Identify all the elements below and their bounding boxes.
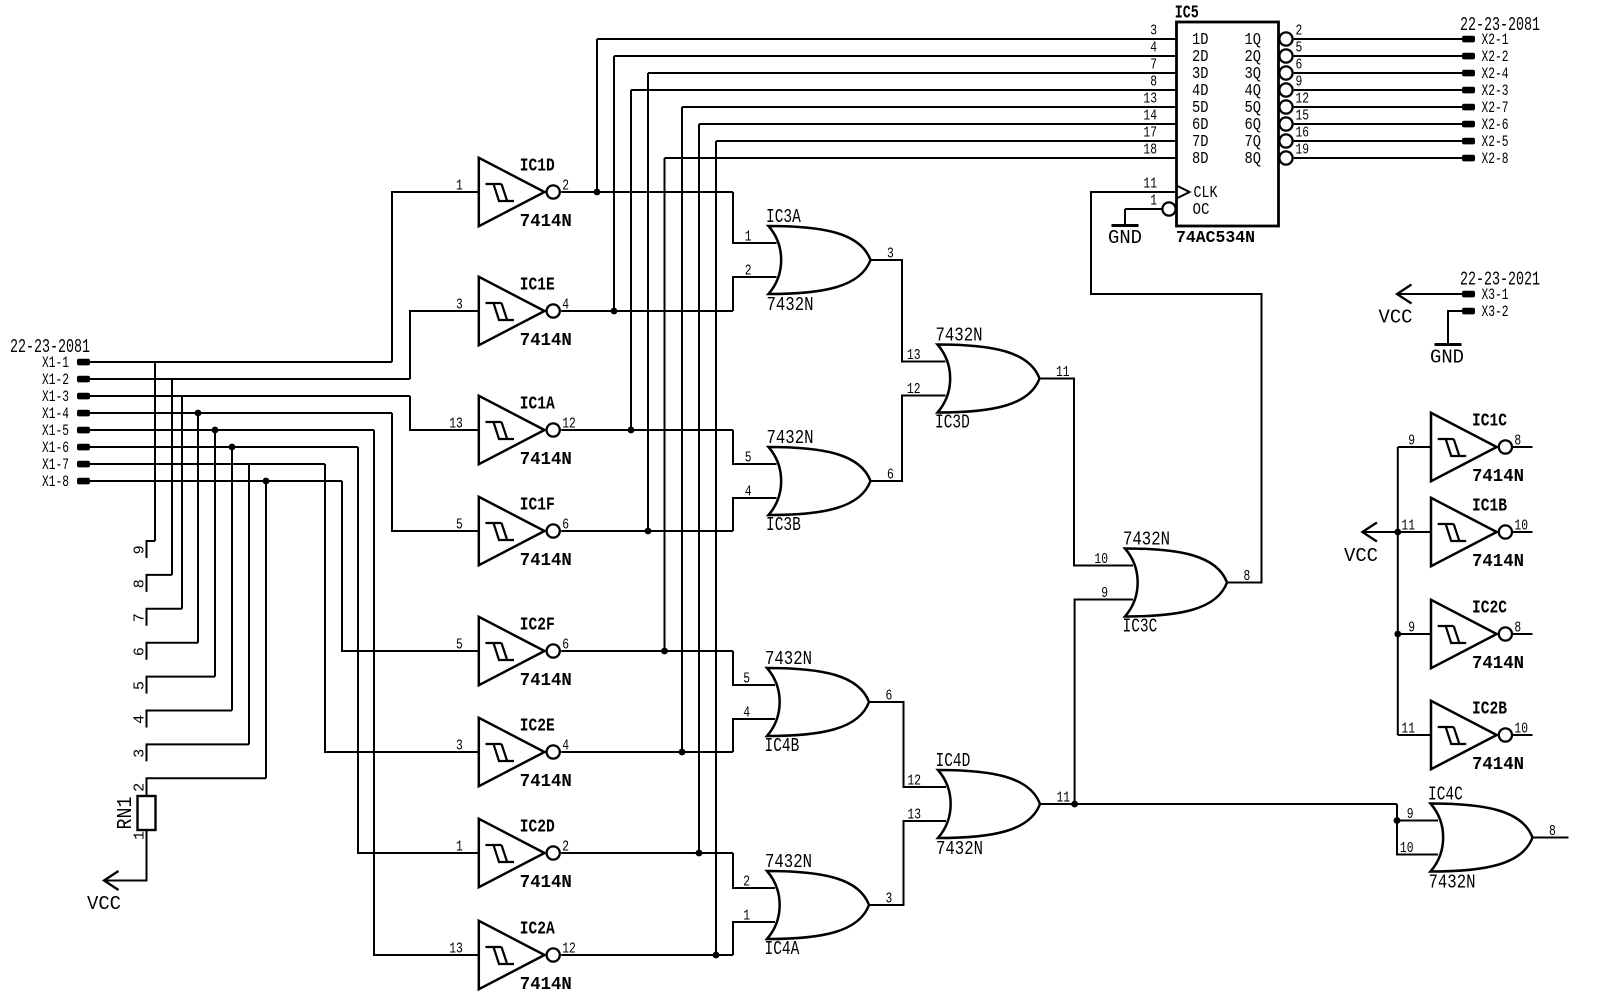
svg-text:IC3B: IC3B — [766, 514, 801, 536]
VCC symbol at X3 — [1397, 285, 1412, 304]
svg-text:74AC534N: 74AC534N — [1176, 229, 1255, 248]
wire X1-7 to RN1 pin 3 — [248, 464, 250, 744]
or-gate IC4A 7432N — [767, 871, 869, 939]
wire X1-8 bus — [89, 480, 342, 482]
wire 5Q to X2 — [1294, 106, 1462, 108]
svg-text:7432N: 7432N — [765, 851, 812, 873]
connector pad X3-2 — [1462, 308, 1475, 315]
inverter IC2F 7414N — [479, 617, 560, 685]
svg-text:IC4B: IC4B — [765, 735, 800, 757]
svg-text:9: 9 — [132, 545, 149, 554]
svg-text:X1-2: X1-2 — [42, 371, 69, 389]
output bubble 8Q — [1279, 151, 1292, 164]
svg-text:X1-1: X1-1 — [42, 354, 69, 372]
wire riser x=631 to IC5 — [630, 90, 632, 430]
svg-text:5: 5 — [132, 681, 149, 690]
wire inverter output y=192 — [561, 191, 733, 193]
wire inverter output y=752 — [561, 751, 733, 753]
svg-text:7414N: 7414N — [520, 551, 572, 571]
svg-text:15: 15 — [1296, 108, 1310, 125]
svg-text:14: 14 — [1143, 108, 1157, 125]
svg-text:X1-6: X1-6 — [42, 439, 69, 457]
svg-text:IC1D: IC1D — [520, 157, 555, 177]
wire IC4C input jog — [1397, 804, 1438, 855]
connector pad X1-4 — [77, 410, 90, 417]
wire X1-5 bus — [89, 429, 374, 431]
or-gate IC3B 7432N — [769, 447, 871, 515]
RN1 pin 8 stub — [147, 575, 173, 592]
inverter IC1C 7414N — [1431, 413, 1512, 481]
connector pad X2-6 — [1462, 121, 1475, 128]
svg-text:7414N: 7414N — [1472, 654, 1524, 674]
wire IC1F out to IC3B pin4 — [733, 498, 777, 531]
inverter IC2D 7414N — [479, 819, 560, 887]
wire X1-8 to RN1 pin 2 — [265, 481, 267, 778]
wire 3Q to X2 — [1294, 72, 1462, 74]
svg-text:7414N: 7414N — [520, 975, 572, 995]
VCC symbol at RN1 — [104, 871, 119, 890]
connector pad X1-2 — [77, 376, 90, 383]
svg-text:7432N: 7432N — [936, 838, 983, 860]
RN1 pin 6 stub — [147, 643, 199, 660]
svg-text:1: 1 — [745, 229, 752, 246]
connector pad X2-5 — [1462, 138, 1475, 145]
inverter IC2A 7414N — [479, 921, 560, 989]
wire IC3A out to IC3D pin13 — [871, 260, 946, 362]
wire X1-3 to IC1A input — [410, 396, 480, 430]
inverter IC1D 7414N — [479, 158, 560, 226]
svg-text:13: 13 — [1143, 91, 1157, 108]
wire bus y=73 to IC5 — [648, 72, 1177, 74]
wire spare input y=735 — [1398, 734, 1432, 736]
or-gate IC3A 7432N — [769, 226, 871, 294]
ground symbol at X3 — [1447, 311, 1449, 345]
svg-text:8: 8 — [1150, 74, 1157, 91]
svg-text:7432N: 7432N — [765, 648, 812, 670]
svg-text:X2-3: X2-3 — [1482, 82, 1509, 100]
RN1 pin 2 stub — [147, 778, 267, 795]
wire 1Q to X2 — [1294, 38, 1462, 40]
resistor network RN1 — [138, 796, 156, 830]
wire IC4D out branch to IC3C pin9 — [1075, 600, 1133, 805]
svg-text:X2-5: X2-5 — [1482, 133, 1509, 151]
junction riser x=631 — [628, 427, 635, 434]
connector pad X1-5 — [77, 427, 90, 434]
wire X1-1 bus — [89, 361, 392, 363]
or-gate IC4D 7432N — [938, 770, 1040, 838]
wire X1-5 to IC2A input — [374, 430, 480, 955]
wire X1-4 bus — [89, 412, 392, 414]
svg-text:7432N: 7432N — [1123, 529, 1170, 551]
svg-text:22-23-2081: 22-23-2081 — [1460, 14, 1540, 36]
connector pad X2-7 — [1462, 104, 1475, 111]
inverter IC1B 7414N — [1431, 498, 1512, 566]
svg-text:7414N: 7414N — [1472, 467, 1524, 487]
svg-text:IC4A: IC4A — [765, 938, 800, 960]
junction X1-8/RN1 — [263, 478, 270, 485]
junction riser x=699 — [696, 850, 703, 857]
svg-text:7432N: 7432N — [936, 325, 983, 347]
wire IC1B output — [1512, 531, 1533, 533]
svg-text:IC2E: IC2E — [520, 717, 555, 737]
svg-text:IC1E: IC1E — [520, 276, 555, 296]
wire X1-3 bus — [89, 395, 410, 397]
inverter IC1F 7414N — [479, 497, 560, 565]
svg-text:IC5: IC5 — [1175, 4, 1199, 24]
wire X3-2 to GND — [1448, 311, 1462, 344]
svg-text:GND: GND — [1430, 347, 1464, 369]
svg-text:7432N: 7432N — [767, 294, 814, 316]
wire spare input y=532 — [1398, 531, 1432, 533]
wire inverter output y=955 — [561, 954, 733, 956]
svg-text:5: 5 — [745, 450, 752, 467]
svg-text:RN1: RN1 — [115, 797, 138, 830]
svg-text:7: 7 — [132, 613, 149, 622]
svg-text:IC2D: IC2D — [520, 818, 555, 838]
junction X1-5/RN1 — [212, 427, 219, 434]
wire IC2F out to IC4B pin5 — [733, 651, 775, 685]
svg-text:IC2F: IC2F — [520, 616, 555, 636]
wire riser x=716 to IC5 — [715, 141, 717, 955]
connector pad X3-1 — [1462, 291, 1475, 298]
svg-text:17: 17 — [1143, 125, 1157, 142]
wire X1-1 to IC1D input — [392, 192, 480, 362]
RN1 pin 7 stub — [147, 609, 183, 626]
wire inverter output y=311 — [561, 310, 733, 312]
wire X1-5 to RN1 pin 5 — [214, 430, 216, 677]
connector pad X1-7 — [77, 461, 90, 468]
svg-text:VCC: VCC — [87, 893, 121, 915]
wire X1-2 to RN1 pin 8 — [171, 379, 173, 575]
wire bus y=39 to IC5 — [597, 38, 1177, 40]
svg-text:X1-7: X1-7 — [42, 456, 69, 474]
svg-text:IC3C: IC3C — [1123, 616, 1158, 638]
svg-text:GND: GND — [1108, 227, 1142, 249]
svg-text:7: 7 — [1150, 57, 1157, 74]
RN1 pin 5 stub — [147, 677, 216, 694]
wire 2Q to X2 — [1294, 55, 1462, 57]
svg-text:X1-3: X1-3 — [42, 388, 69, 406]
inverter IC1E 7414N — [479, 277, 560, 345]
svg-text:X2-7: X2-7 — [1482, 99, 1509, 117]
inverter IC1A 7414N — [479, 396, 560, 464]
wire IC2E out to IC4B pin4 — [733, 719, 775, 752]
wire bus y=90 to IC5 — [631, 89, 1177, 91]
output bubble 6Q — [1279, 117, 1292, 130]
wire X1-2 bus — [89, 378, 410, 380]
junction IC4C pin9 — [1394, 817, 1401, 824]
wire IC1A out to IC3B pin5 — [733, 430, 777, 464]
or-gate IC4C 7432N — [1431, 804, 1533, 872]
svg-text:18: 18 — [1143, 142, 1157, 159]
wire IC1E out to IC3A pin2 — [733, 277, 777, 311]
ground symbol at IC5 OC — [1124, 209, 1126, 226]
svg-text:X1-4: X1-4 — [42, 405, 69, 423]
wire inverter output y=651 — [561, 650, 733, 652]
wire VCC to spare inverter inputs — [1362, 531, 1397, 533]
svg-text:12: 12 — [1296, 91, 1310, 108]
wire bus y=56 to IC5 — [614, 55, 1177, 57]
connector pad X1-6 — [77, 444, 90, 451]
connector pad X1-3 — [77, 393, 90, 400]
svg-text:1: 1 — [743, 908, 750, 925]
wire IC3D out to IC3C pin10 — [1040, 379, 1134, 566]
svg-text:9: 9 — [1296, 74, 1303, 91]
svg-text:X2-2: X2-2 — [1482, 48, 1509, 66]
junction riser x=648 — [645, 528, 652, 535]
connector pad X2-3 — [1462, 87, 1475, 94]
svg-text:19: 19 — [1296, 142, 1310, 159]
wire 4Q to X2 — [1294, 89, 1462, 91]
svg-text:11: 11 — [1143, 176, 1157, 193]
svg-text:4: 4 — [1150, 40, 1157, 57]
svg-text:2: 2 — [745, 263, 752, 280]
junction riser x=716 — [713, 952, 720, 959]
or-gate IC3C 7432N — [1125, 549, 1227, 617]
output bubble 1Q — [1279, 32, 1292, 45]
junction IC4D out — [1071, 801, 1078, 808]
svg-text:X1-5: X1-5 — [42, 422, 69, 440]
wire X1-3 to RN1 pin 7 — [181, 396, 183, 609]
wire X1-4 to IC1F input — [392, 413, 480, 531]
svg-text:IC1F: IC1F — [520, 496, 555, 516]
svg-text:VCC: VCC — [1344, 545, 1378, 567]
svg-text:IC3A: IC3A — [766, 206, 801, 228]
inverter IC2B 7414N — [1431, 701, 1512, 769]
wire spare input y=634 — [1398, 633, 1432, 635]
IC U5 74AC534N body — [1177, 22, 1279, 226]
svg-text:4: 4 — [745, 484, 752, 501]
svg-text:IC4C: IC4C — [1428, 784, 1463, 806]
wire X1-6 to RN1 pin 4 — [231, 447, 233, 711]
svg-text:X2-6: X2-6 — [1482, 116, 1509, 134]
wire riser x=597 to IC5 — [596, 39, 598, 192]
output bubble 4Q — [1279, 83, 1292, 96]
svg-text:7414N: 7414N — [520, 331, 572, 351]
clock wedge IC5 — [1177, 186, 1190, 199]
svg-text:IC1A: IC1A — [520, 395, 555, 415]
svg-text:VCC: VCC — [1379, 307, 1413, 329]
inverter IC2C 7414N — [1431, 600, 1512, 668]
inverter IC2E 7414N — [479, 718, 560, 786]
svg-text:2: 2 — [1296, 23, 1303, 40]
svg-text:IC4D: IC4D — [936, 750, 971, 772]
svg-text:2: 2 — [743, 874, 750, 891]
svg-text:4: 4 — [132, 715, 149, 724]
output bubble 7Q — [1279, 134, 1292, 147]
wire X1-2 to IC1E input — [410, 311, 480, 379]
svg-text:X3-1: X3-1 — [1482, 286, 1509, 304]
svg-text:6: 6 — [132, 647, 149, 656]
junction riser x=597 — [594, 189, 601, 196]
wire bus y=141 to IC5 — [716, 140, 1177, 142]
svg-text:7414N: 7414N — [1472, 755, 1524, 775]
RN1 pin 9 stub — [147, 541, 156, 558]
wire inverter output y=430 — [561, 429, 733, 431]
wire bus y=124 to IC5 — [699, 123, 1177, 125]
svg-text:8D: 8D — [1192, 149, 1209, 168]
wire inverter output y=531 — [561, 530, 733, 532]
junction spare VCC 2 — [1394, 631, 1401, 638]
wire 7Q to X2 — [1294, 140, 1462, 142]
wire riser x=614 to IC5 — [613, 56, 615, 311]
wire X1-1 to RN1 pin 9 — [154, 362, 156, 541]
svg-text:7432N: 7432N — [767, 427, 814, 449]
svg-text:7414N: 7414N — [520, 671, 572, 691]
junction riser x=664.5 — [661, 648, 668, 655]
or-gate IC3D 7432N — [938, 345, 1040, 413]
wire 6Q to X2 — [1294, 123, 1462, 125]
wire IC4D out to IC4C — [1040, 803, 1397, 805]
svg-text:4: 4 — [743, 705, 750, 722]
wire X1-7 bus — [89, 463, 325, 465]
wire riser x=699 to IC5 — [698, 124, 700, 853]
svg-text:X3-2: X3-2 — [1482, 303, 1509, 321]
wire IC4C output — [1533, 837, 1569, 839]
RN1 pin 4 stub — [147, 711, 233, 728]
svg-text:IC3D: IC3D — [935, 412, 970, 434]
svg-text:7432N: 7432N — [1429, 872, 1476, 894]
svg-text:X2-4: X2-4 — [1482, 65, 1509, 83]
wire riser x=664.5 to IC5 — [664, 158, 666, 651]
output bubble 5Q — [1279, 100, 1292, 113]
wire X1-4 to RN1 pin 6 — [197, 413, 199, 643]
wire IC3B out to IC3D pin12 — [871, 396, 946, 482]
wire IC2B output — [1512, 734, 1533, 736]
connector pad X1-8 — [77, 478, 90, 485]
wire X1-6 to IC2D input — [358, 447, 480, 853]
svg-text:7414N: 7414N — [520, 212, 572, 232]
svg-text:7414N: 7414N — [520, 772, 572, 792]
junction riser x=682 — [679, 749, 686, 756]
svg-text:IC2B: IC2B — [1472, 700, 1507, 720]
wire IC2D out to IC4A pin2 — [733, 853, 775, 888]
svg-text:X2-8: X2-8 — [1482, 150, 1509, 168]
svg-text:5: 5 — [1296, 40, 1303, 57]
wire IC2A out to IC4A pin1 — [733, 922, 775, 955]
wire X1-7 to IC2E input — [325, 464, 480, 752]
svg-text:IC1B: IC1B — [1472, 497, 1507, 517]
wire spare input y=447 — [1398, 446, 1432, 448]
connector pad X2-8 — [1462, 155, 1475, 162]
svg-text:8Q: 8Q — [1245, 149, 1262, 168]
junction X1-4/RN1 — [195, 410, 202, 417]
wire X1-8 to IC2F input — [342, 481, 480, 651]
wire IC4A out to IC4D pin13 — [869, 821, 946, 905]
svg-text:16: 16 — [1296, 125, 1310, 142]
wire IC1C output — [1512, 446, 1533, 448]
connector pad X2-2 — [1462, 53, 1475, 60]
wire riser x=648 to IC5 — [647, 73, 649, 531]
wire IC3C out to IC5 CLK — [1091, 192, 1262, 583]
wire 8Q to X2 — [1294, 157, 1462, 159]
wire X1-6 bus — [89, 446, 358, 448]
svg-text:IC2A: IC2A — [520, 920, 555, 940]
junction spare VCC 1 — [1394, 529, 1401, 536]
wire inverter output y=853 — [561, 852, 733, 854]
VCC symbol at spare gates — [1362, 523, 1377, 542]
svg-text:7414N: 7414N — [520, 873, 572, 893]
svg-text:IC2C: IC2C — [1472, 599, 1507, 619]
connector pad X2-4 — [1462, 70, 1475, 77]
connector pad X1-1 — [77, 359, 90, 366]
svg-text:X1-8: X1-8 — [42, 473, 69, 491]
wire IC1D out to IC3A pin1 — [733, 192, 777, 243]
svg-text:1: 1 — [1150, 193, 1157, 210]
svg-text:3: 3 — [132, 749, 149, 758]
svg-text:5: 5 — [743, 671, 750, 688]
wire bus y=107 to IC5 — [682, 106, 1177, 108]
wire X3-1 to VCC — [1397, 293, 1462, 295]
connector pad X2-1 — [1462, 36, 1475, 43]
svg-text:3: 3 — [1150, 23, 1157, 40]
wire riser x=682 to IC5 — [681, 107, 683, 752]
svg-text:2: 2 — [132, 783, 149, 792]
output bubble 3Q — [1279, 66, 1292, 79]
wire IC2C output — [1512, 633, 1533, 635]
svg-text:7414N: 7414N — [1472, 552, 1524, 572]
svg-text:OC: OC — [1193, 200, 1210, 219]
wire bus y=158 to IC5 — [665, 157, 1177, 159]
inversion bubble OC — [1162, 202, 1175, 215]
svg-text:7414N: 7414N — [520, 450, 572, 470]
RN1 pin 3 stub — [147, 744, 250, 761]
junction X1-6/RN1 — [229, 444, 236, 451]
wire RN1 pin1 to VCC — [104, 830, 147, 881]
junction riser x=614 — [611, 308, 618, 315]
output bubble 2Q — [1279, 49, 1292, 62]
or-gate IC4B 7432N — [767, 668, 869, 736]
svg-text:8: 8 — [132, 579, 149, 588]
wire IC4B out to IC4D pin12 — [869, 702, 946, 787]
svg-text:IC1C: IC1C — [1472, 412, 1507, 432]
wire OC to GND — [1125, 208, 1162, 210]
svg-text:6: 6 — [1296, 57, 1303, 74]
